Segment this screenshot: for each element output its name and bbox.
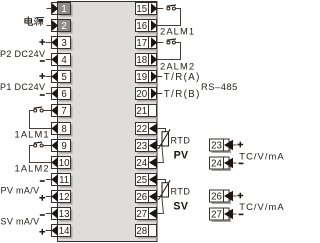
- terminal 9: [51, 140, 72, 154]
- wire to terminal 1: [47, 8, 53, 10]
- wire to terminal 6: [46, 93, 52, 95]
- plus sign terminal 12: [39, 195, 45, 201]
- terminal 19: [136, 71, 158, 85]
- minus sign TC 24: [239, 163, 244, 165]
- svg-text:24: 24: [136, 158, 147, 169]
- svg-text:18: 18: [136, 55, 147, 66]
- svg-text:25: 25: [136, 175, 147, 186]
- relay contact 2ALM1 (terminals 15-16): [157, 5, 181, 26]
- svg-text:SV mA/V: SV mA/V: [1, 216, 40, 226]
- svg-text:SV: SV: [173, 200, 188, 212]
- plus sign terminal 3: [39, 39, 45, 45]
- terminal 27: [136, 208, 158, 222]
- svg-text:23: 23: [136, 141, 147, 152]
- plus sign terminal 5: [39, 73, 45, 79]
- minus sign terminal 11: [40, 180, 45, 182]
- svg-text:26: 26: [211, 191, 222, 202]
- label power 电源: [25, 17, 33, 25]
- svg-text:1ALM1: 1ALM1: [15, 128, 50, 139]
- TC terminal 27 (alternate input): [210, 208, 237, 222]
- svg-text:13: 13: [59, 209, 70, 220]
- svg-text:1: 1: [61, 4, 66, 15]
- wire terminal 20: [157, 93, 162, 95]
- terminal 17: [136, 37, 158, 51]
- RTD sensor PV (terminals 22-24): [157, 129, 170, 163]
- wire to terminal 12: [46, 196, 52, 198]
- svg-text:T/R(A): T/R(A): [164, 72, 201, 83]
- wire to terminal 13: [46, 213, 52, 215]
- terminal 11: [51, 174, 72, 188]
- terminal 28: [136, 225, 158, 239]
- svg-text:5: 5: [61, 72, 66, 83]
- terminal 14: [51, 225, 72, 239]
- terminal 10: [51, 157, 72, 171]
- svg-text:T/R(B): T/R(B): [164, 89, 201, 100]
- svg-text:8: 8: [61, 124, 66, 135]
- svg-text:3: 3: [61, 38, 66, 49]
- svg-text:15: 15: [136, 4, 147, 15]
- relay contact 1ALM1 (terminals 7-8): [30, 107, 52, 129]
- terminal 7: [51, 105, 72, 119]
- svg-text:P1 DC24V: P1 DC24V: [0, 82, 45, 92]
- plus sign TC 26: [237, 193, 243, 199]
- svg-text:16: 16: [136, 21, 147, 32]
- TC terminal 24 (alternate input): [210, 157, 237, 171]
- svg-text:TC/V/mA: TC/V/mA: [239, 151, 284, 162]
- plus sign terminal 14: [39, 229, 45, 235]
- wire to terminal 3: [46, 42, 52, 44]
- terminal 23: [136, 140, 158, 154]
- svg-text:2ALM1: 2ALM1: [160, 25, 195, 36]
- terminal 2: [52, 20, 73, 34]
- TC terminal 26 (alternate input): [210, 190, 237, 204]
- minus sign terminal 6: [40, 94, 45, 96]
- svg-text:27: 27: [136, 209, 147, 220]
- wire to terminal 11: [46, 179, 52, 181]
- svg-text:22: 22: [136, 124, 147, 135]
- wire terminal 19: [157, 76, 162, 78]
- svg-text:14: 14: [59, 226, 70, 237]
- svg-text:P2 DC24V: P2 DC24V: [0, 49, 45, 59]
- TC terminal 23 (alternate input): [210, 139, 237, 153]
- svg-text:TC/V/mA: TC/V/mA: [239, 201, 284, 212]
- svg-text:2: 2: [61, 21, 66, 32]
- terminal 20: [136, 88, 158, 102]
- svg-text:20: 20: [136, 89, 147, 100]
- svg-text:RTD: RTD: [171, 135, 191, 145]
- svg-text:24: 24: [211, 158, 222, 169]
- wire to terminal 14: [46, 230, 52, 232]
- terminal 13: [51, 208, 72, 222]
- relay contact 2ALM2 (terminals 17-18): [157, 39, 181, 60]
- minus sign terminal 13: [40, 214, 45, 216]
- terminal 22: [136, 123, 158, 137]
- terminal 26: [136, 191, 158, 205]
- minus sign terminal 4: [40, 60, 45, 62]
- wire to terminal 2: [47, 25, 53, 27]
- svg-text:17: 17: [136, 38, 147, 49]
- svg-text:1ALM2: 1ALM2: [15, 162, 50, 173]
- terminal 16: [136, 20, 158, 34]
- svg-text:PV mA/V: PV mA/V: [1, 185, 40, 195]
- terminal 18: [136, 54, 158, 68]
- svg-text:PV: PV: [174, 150, 189, 162]
- svg-text:11: 11: [59, 175, 69, 186]
- svg-text:9: 9: [61, 141, 66, 152]
- svg-text:2ALM2: 2ALM2: [160, 60, 195, 71]
- svg-text:RTD: RTD: [171, 187, 191, 197]
- svg-text:28: 28: [136, 226, 147, 237]
- terminal 3: [51, 37, 72, 51]
- svg-text:26: 26: [136, 192, 147, 203]
- terminal 24: [136, 157, 158, 171]
- wire to terminal 4: [46, 59, 52, 61]
- svg-text:27: 27: [211, 209, 222, 220]
- terminal 21: [136, 105, 158, 119]
- svg-text:RS–485: RS–485: [201, 81, 238, 92]
- terminal 15: [136, 3, 158, 17]
- svg-text:7: 7: [61, 106, 66, 117]
- terminal 6: [51, 88, 72, 102]
- svg-text:21: 21: [136, 106, 147, 117]
- terminal 12: [51, 191, 72, 205]
- terminal 1: [52, 3, 73, 17]
- terminal 8: [51, 123, 72, 137]
- RTD sensor SV (terminals 25-27): [157, 180, 170, 214]
- svg-text:19: 19: [136, 72, 147, 83]
- controller body outline: [58, 2, 158, 242]
- svg-text:10: 10: [59, 158, 70, 169]
- wire to terminal 5: [46, 76, 52, 78]
- terminal 5: [51, 71, 72, 85]
- svg-text:4: 4: [61, 55, 67, 66]
- terminal 25: [136, 174, 158, 188]
- svg-text:23: 23: [211, 140, 222, 151]
- terminal 4: [51, 54, 72, 68]
- svg-text:12: 12: [59, 192, 70, 203]
- minus sign TC 27: [239, 214, 244, 216]
- svg-text:6: 6: [61, 89, 66, 100]
- relay contact 1ALM2 (terminals 9-10): [30, 142, 52, 163]
- plus sign TC 23: [237, 142, 243, 148]
